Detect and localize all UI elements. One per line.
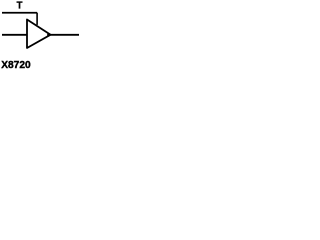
- svg-text:X8720: X8720: [1, 60, 31, 71]
- wire output (right): [51, 34, 79, 36]
- wire enable vertical drop to buffer top edge: [36, 13, 38, 25]
- wire input (left): [2, 34, 27, 36]
- tri-state buffer X8720 body: [27, 20, 51, 49]
- svg-text:T: T: [16, 0, 22, 11]
- wire enable horizontal (net T): [2, 12, 37, 14]
- buffer apex fill: [47, 34, 50, 36]
